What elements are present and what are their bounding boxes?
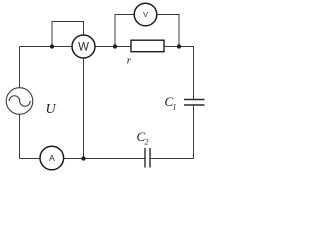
capacitor C1: [184, 100, 205, 106]
wire: voltmeter loop down to node: [157, 15, 180, 47]
wire: right vertical upper (to capacitor C1): [193, 47, 195, 100]
node: junction dot at wattmeter loop tap: [50, 44, 54, 48]
label r: [127, 55, 132, 67]
svg-text:1: 1: [173, 103, 177, 112]
svg-text:2: 2: [145, 138, 149, 147]
wattmeter W: [72, 35, 95, 58]
wire: top horizontal from wattmeter to resistor: [95, 46, 131, 48]
svg-text:W: W: [78, 42, 89, 54]
AC source: [6, 88, 33, 115]
svg-text:A: A: [49, 153, 55, 163]
wire: right vertical lower (from capacitor C1): [193, 105, 195, 159]
wire: top horizontal from resistor to top-right corner: [164, 46, 195, 48]
resistor r: [131, 40, 164, 52]
wire: wattmeter voltage-coil loop: [52, 22, 84, 47]
wire: bottom horizontal from capacitor C2 to right corner: [150, 158, 194, 160]
wire: bottom horizontal from left corner to ammeter: [20, 158, 41, 160]
label U: [46, 102, 57, 117]
label C2: [137, 129, 149, 147]
svg-text:U: U: [46, 102, 57, 117]
node: junction dot right of resistor: [177, 44, 181, 48]
node: junction dot on bottom wire: [81, 156, 85, 160]
node: junction dot left of resistor: [113, 44, 117, 48]
wire: bottom horizontal from ammeter to capacitor C2: [64, 158, 146, 160]
capacitor C2: [145, 148, 150, 168]
voltmeter V: [134, 3, 157, 26]
wire: top horizontal from left corner to wattmeter: [20, 46, 73, 48]
label C1: [165, 94, 177, 112]
wire: middle vertical from wattmeter to bottom: [83, 58, 85, 159]
svg-text:r: r: [127, 55, 132, 67]
wire: left vertical upper segment: [19, 47, 21, 89]
wire: left vertical lower segment: [19, 115, 21, 159]
wire: voltmeter loop up from node: [115, 15, 135, 47]
ammeter A: [40, 146, 64, 170]
svg-text:V: V: [143, 10, 148, 19]
